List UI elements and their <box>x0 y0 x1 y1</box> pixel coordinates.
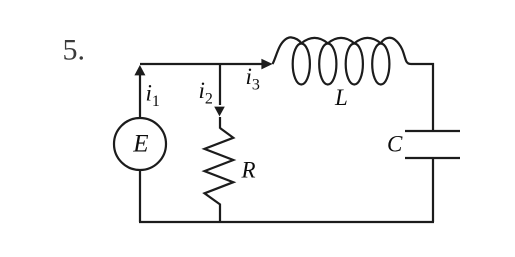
resistor R zigzag <box>205 128 234 222</box>
inductor hump 1 <box>301 38 328 43</box>
inductor loop 3 <box>346 44 363 85</box>
inductor L lead-in <box>273 37 302 64</box>
svg-text:5.: 5. <box>63 34 86 67</box>
wire left rail lower <box>139 170 141 222</box>
inductor loop 2 <box>319 44 336 85</box>
wire right rail upper <box>432 63 434 130</box>
current arrow i3 head <box>261 59 272 70</box>
svg-text:i1: i1 <box>146 81 160 111</box>
current arrow i1 head <box>134 65 145 75</box>
capacitor C bottom plate <box>405 157 460 159</box>
wire top horizontal <box>140 63 263 65</box>
wire middle branch vertical <box>219 64 221 105</box>
inductor loop 4 <box>372 44 389 85</box>
capacitor C top plate <box>405 130 460 132</box>
svg-text:i3: i3 <box>246 64 260 94</box>
inductor hump 2 <box>328 38 355 43</box>
inductor loop 1 <box>293 44 310 85</box>
wire left branch vertical <box>139 74 141 118</box>
wire right rail lower <box>432 159 434 222</box>
source E circle <box>114 118 166 170</box>
current arrow i2 head <box>214 107 225 117</box>
svg-text:E: E <box>132 131 148 158</box>
svg-text:R: R <box>241 158 256 183</box>
wire arrow to resistor <box>219 117 221 129</box>
inductor hump 3 <box>354 38 381 43</box>
svg-text:C: C <box>387 132 403 157</box>
svg-text:i2: i2 <box>199 78 213 108</box>
wire bottom horizontal <box>139 221 434 223</box>
svg-text:L: L <box>334 85 348 110</box>
inductor lead-out <box>381 38 434 64</box>
